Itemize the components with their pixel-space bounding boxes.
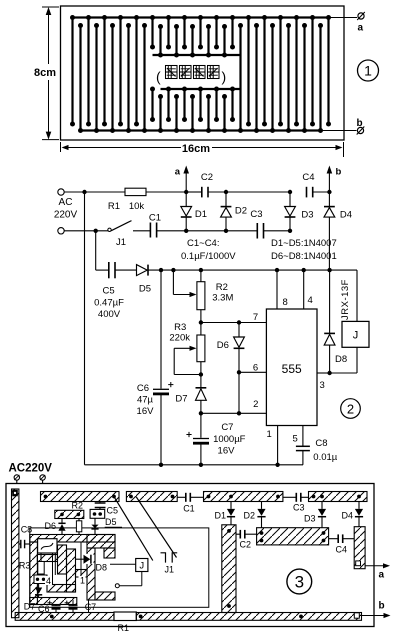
svg-text:a: a — [379, 570, 385, 581]
svg-text:D6~D8:1N4001: D6~D8:1N4001 — [271, 251, 337, 262]
trace pad box A — [55, 510, 84, 518]
trace maze block bottom — [95, 592, 115, 600]
svg-text:555: 555 — [282, 362, 302, 376]
pin 4 lead — [304, 270, 313, 309]
trace top bar 4 — [309, 492, 368, 502]
resistor R1 pcb — [114, 612, 136, 621]
C4 pcb label — [336, 545, 348, 555]
trace maze left arm — [30, 542, 38, 605]
electrode board outline — [61, 6, 345, 140]
svg-text:C2: C2 — [240, 540, 252, 550]
output b label — [336, 167, 342, 178]
capacitor C2 — [202, 187, 208, 198]
diode types note — [271, 238, 337, 262]
terminal b label — [357, 118, 363, 129]
AC source terminals — [58, 189, 64, 234]
node D2 bottom — [224, 229, 228, 233]
callout 2 — [341, 399, 361, 419]
svg-text:C5: C5 — [103, 286, 115, 297]
C3 pcb label — [293, 503, 305, 513]
dimension 8cm — [34, 7, 59, 140]
electrode b bottom bus — [81, 129, 321, 131]
diode D2 pcb — [257, 502, 265, 528]
diode D7 pcb — [35, 584, 42, 598]
dimension 16cm — [61, 142, 344, 157]
bait zone upper rail — [153, 54, 241, 56]
R2 trace label — [72, 501, 84, 511]
R2 body outline — [76, 519, 81, 535]
pin 3 lead — [317, 373, 330, 391]
svg-text:R3: R3 — [174, 322, 186, 333]
trace maze inner horizontal — [47, 585, 76, 593]
node C6 top — [159, 268, 163, 272]
svg-text:C8: C8 — [21, 525, 33, 535]
C4 label — [302, 172, 314, 183]
relay footprint box — [38, 539, 57, 553]
C1 label — [149, 213, 161, 224]
node b column top — [327, 190, 331, 194]
wire top AC row — [64, 191, 186, 193]
trace right bar — [354, 527, 365, 569]
C5 value label — [94, 286, 124, 320]
switch J1 — [108, 221, 151, 232]
svg-text:8cm: 8cm — [34, 67, 56, 79]
pin 2 label — [253, 399, 258, 410]
C6 value label — [137, 383, 155, 417]
wire C7 lead — [88, 600, 90, 613]
svg-text:4: 4 — [46, 576, 51, 586]
svg-text:D6: D6 — [217, 340, 229, 351]
J1 label — [116, 237, 126, 248]
trace maze block arm — [87, 548, 95, 600]
trace maze right vertical — [67, 549, 76, 592]
trace tall middle bar — [222, 525, 236, 613]
output b pcb label — [379, 601, 385, 612]
svg-text:): ) — [222, 69, 227, 85]
D6 label — [217, 340, 229, 351]
output a arrow — [183, 166, 189, 193]
relay coil J — [330, 270, 369, 373]
D5 label — [139, 284, 151, 295]
svg-text:JRX-13F: JRX-13F — [340, 279, 351, 320]
svg-text:C1~C4:: C1~C4: — [187, 238, 219, 249]
diode D8 — [324, 270, 335, 373]
diode D5 — [137, 265, 149, 276]
PCB board outline — [6, 484, 374, 627]
diode D1 pcb — [227, 502, 235, 525]
R2 value label — [212, 282, 233, 304]
capacitor C8 — [296, 446, 310, 465]
wire pin7 — [201, 322, 267, 324]
node D6 top — [237, 320, 241, 324]
C7 value label — [213, 422, 246, 457]
capacitor C3 pcb — [283, 493, 309, 502]
C8 pcb label — [21, 525, 33, 535]
D6 pcb label — [45, 521, 57, 531]
node pin4 top — [302, 268, 306, 272]
C5 pcb label — [107, 506, 119, 516]
svg-text:400V: 400V — [98, 309, 121, 320]
pad box lower — [34, 575, 47, 584]
svg-text:C8: C8 — [315, 438, 327, 449]
diode D5 pcb — [91, 518, 98, 534]
svg-text:3: 3 — [320, 380, 325, 391]
node R2 top — [199, 268, 203, 272]
svg-text:R3: R3 — [19, 561, 31, 571]
potentiometer R2 — [197, 270, 205, 335]
svg-text:a: a — [175, 167, 181, 178]
svg-text:1: 1 — [267, 429, 272, 440]
node D1 bottom — [184, 229, 188, 233]
capacitor C5 — [96, 231, 137, 278]
capacitor C4 — [307, 187, 313, 198]
node pin3 D8 — [327, 371, 331, 375]
svg-text:C2: C2 — [201, 172, 213, 183]
pin 6 label — [253, 363, 258, 374]
AC220V input label — [9, 463, 53, 475]
D7 label — [175, 394, 187, 405]
svg-text:220V: 220V — [54, 210, 78, 221]
component area outline — [30, 528, 209, 607]
C6 pcb label — [38, 604, 50, 614]
trace maze mid vertical — [58, 545, 67, 574]
svg-text:D4: D4 — [342, 511, 354, 521]
capacitor C3 — [257, 223, 263, 239]
IC pin 1 mark — [79, 576, 86, 586]
svg-text:AC: AC — [59, 197, 73, 208]
node C6 bottom — [159, 463, 163, 467]
terminal a lead — [329, 12, 365, 20]
trace bottom bar right — [136, 613, 361, 621]
diode D2 — [221, 192, 232, 231]
relay type label JRX-13F — [340, 279, 351, 320]
svg-text:1: 1 — [80, 576, 85, 586]
svg-text:C1: C1 — [149, 213, 161, 224]
potentiometer R3 — [197, 335, 205, 375]
R1 value label — [108, 201, 144, 212]
wire left rail — [84, 192, 86, 465]
D4 label — [340, 210, 352, 221]
svg-text:0.01µ: 0.01µ — [313, 452, 337, 463]
svg-text:0.47µF: 0.47µF — [94, 297, 124, 308]
svg-text:1000µF: 1000µF — [213, 434, 246, 445]
D2 label — [235, 206, 247, 217]
relay J box — [110, 559, 148, 588]
svg-text:3: 3 — [295, 573, 304, 592]
node D3 bottom — [288, 229, 292, 233]
C5 pad box — [90, 509, 105, 518]
svg-text:16cm: 16cm — [182, 143, 210, 155]
svg-text:D2: D2 — [235, 206, 247, 217]
bait area label (fang you er chu) — [156, 66, 226, 85]
wire maze lead 2 — [54, 553, 56, 575]
D5 pcb label — [105, 517, 117, 527]
trace wide bar — [257, 528, 329, 545]
svg-text:R1: R1 — [118, 623, 130, 633]
diode D6 pcb — [58, 519, 65, 535]
pin 7 label — [253, 312, 258, 323]
D7 pcb label — [24, 602, 36, 612]
node R2 wiper tap — [171, 268, 175, 272]
wire pin6 — [239, 371, 266, 373]
diode D4 pcb — [355, 502, 363, 527]
D1 label — [195, 209, 207, 220]
capacitor C6 electrolytic — [153, 270, 173, 465]
capacitor C1 — [150, 223, 186, 238]
svg-text:C7: C7 — [221, 422, 233, 433]
C3 label — [250, 209, 262, 220]
AC input terminal pins — [14, 475, 45, 492]
svg-text:J1: J1 — [165, 565, 175, 575]
svg-text:R2: R2 — [72, 501, 84, 511]
wire bottom rail — [85, 464, 304, 466]
svg-text:7: 7 — [253, 312, 258, 323]
J1 pcb label — [165, 565, 175, 575]
capacitor C7 electrolytic — [186, 413, 209, 465]
svg-text:0.1µF/1000V: 0.1µF/1000V — [181, 251, 236, 262]
resistor R3 body — [38, 553, 44, 578]
node C7 bottom — [199, 463, 203, 467]
svg-text:b: b — [357, 118, 363, 129]
svg-text:D1: D1 — [215, 511, 227, 521]
trace left rail — [12, 489, 19, 618]
pin 1 lead — [267, 426, 280, 467]
svg-text:47µ: 47µ — [137, 395, 154, 406]
svg-text:a: a — [358, 23, 364, 34]
diode D3 — [285, 192, 296, 231]
svg-text:D4: D4 — [340, 210, 352, 221]
output a label — [175, 167, 181, 178]
svg-text:C1: C1 — [183, 504, 195, 514]
trace maze block notch — [104, 548, 115, 558]
D3 label — [301, 210, 313, 221]
trace top bar 2 — [126, 492, 177, 502]
wire row1 — [186, 191, 329, 193]
wire maze lead 3 — [80, 542, 82, 576]
svg-text:b: b — [336, 167, 342, 178]
jumper diagonal A — [115, 498, 153, 561]
svg-text:C3: C3 — [293, 503, 305, 513]
node pin8 top — [275, 268, 279, 272]
wire D5 horizontal — [105, 526, 122, 528]
svg-text:D6: D6 — [45, 521, 57, 531]
bait zone lower rail — [161, 88, 241, 90]
node R3 bottom — [199, 372, 203, 376]
R3 wiper arm — [174, 346, 201, 375]
capacitor C2 pcb — [236, 530, 257, 539]
trace maze top band — [30, 535, 115, 543]
output b pad arrow — [360, 613, 391, 618]
svg-text:C5: C5 — [107, 506, 119, 516]
svg-text:3.3M: 3.3M — [212, 293, 233, 304]
svg-text:2: 2 — [347, 401, 354, 416]
svg-text:C6: C6 — [137, 383, 149, 394]
svg-text:10k: 10k — [129, 201, 145, 212]
R1 pcb label — [118, 623, 130, 633]
node D6 bottom — [237, 411, 241, 415]
timer IC 555 — [266, 309, 317, 426]
svg-text:b: b — [379, 601, 385, 612]
diode D7 — [196, 375, 207, 414]
trace maze link strip — [76, 570, 88, 578]
svg-text:C4: C4 — [302, 172, 314, 183]
svg-text:D8: D8 — [96, 563, 108, 573]
svg-text:D5: D5 — [105, 517, 117, 527]
svg-text:1: 1 — [364, 63, 372, 79]
electrode a comb fingers — [70, 15, 331, 127]
svg-text:5: 5 — [293, 434, 298, 445]
output a pcb label — [379, 570, 385, 581]
D4 pcb label — [342, 511, 354, 521]
svg-text:D5: D5 — [139, 284, 151, 295]
node D7 bottom — [199, 411, 203, 415]
svg-text:2: 2 — [253, 399, 258, 410]
diode D8 pcb — [76, 554, 94, 564]
svg-text:8: 8 — [283, 297, 288, 308]
wire S-box lead — [52, 553, 54, 585]
trace maze bottom band — [30, 598, 77, 605]
pin 8 lead — [277, 270, 288, 309]
svg-text:16V: 16V — [137, 406, 155, 417]
trace bottom bar left — [15, 613, 114, 621]
node top-left junction — [82, 190, 86, 194]
jumper diagonal B — [136, 497, 177, 558]
D3 pcb label — [304, 514, 316, 524]
terminal a label — [358, 23, 364, 34]
output a pad arrow — [365, 563, 390, 568]
node pin6 tap — [237, 370, 241, 374]
diode D4 — [324, 192, 335, 270]
svg-text:D3: D3 — [304, 514, 316, 524]
diode D1 — [181, 192, 192, 231]
electrode b comb fingers — [78, 23, 323, 133]
trace maze block top — [87, 535, 115, 549]
R3 pcb label — [19, 561, 31, 571]
svg-text:R2: R2 — [216, 282, 228, 293]
svg-text:D3: D3 — [301, 210, 313, 221]
trace maze under-S strip — [37, 555, 57, 562]
callout 3 — [287, 569, 312, 594]
AC 220V label — [54, 197, 78, 221]
D8 pcb label — [96, 563, 108, 573]
D2 pcb label — [244, 511, 256, 521]
IC pin 4 mark — [45, 576, 52, 586]
svg-text:16V: 16V — [218, 446, 236, 457]
C8 value label — [313, 438, 337, 463]
C7 pcb label — [85, 602, 97, 612]
wire positive rail — [148, 269, 357, 271]
svg-text:J1: J1 — [116, 237, 126, 248]
svg-text:D7: D7 — [175, 394, 187, 405]
capacitor C8 pcb — [19, 540, 30, 549]
svg-text:J: J — [139, 561, 144, 572]
pin 5 lead — [293, 426, 303, 447]
D1 pcb label — [215, 511, 227, 521]
svg-text:D1~D5:1N4007: D1~D5:1N4007 — [271, 238, 337, 249]
svg-text:AC220V: AC220V — [9, 463, 53, 475]
node C2 right — [224, 190, 228, 194]
svg-text:D7: D7 — [24, 602, 36, 612]
svg-text:R1: R1 — [108, 201, 120, 212]
capacitor C1 pcb — [177, 493, 203, 502]
capacitor values note — [181, 238, 236, 262]
resistor R1 — [125, 188, 146, 195]
capacitor C5 pcb — [95, 502, 106, 510]
svg-text:J: J — [353, 330, 359, 342]
C2 label — [201, 172, 213, 183]
electrode a top bus — [73, 16, 329, 18]
trace top bar 3 — [204, 492, 283, 502]
node C4 left — [288, 190, 292, 194]
diode D6 — [234, 323, 245, 414]
svg-text:C7: C7 — [85, 602, 97, 612]
wire bottom AC row — [64, 230, 108, 232]
switch J1 contacts — [161, 553, 178, 563]
svg-text:6: 6 — [253, 363, 258, 374]
svg-text:D2: D2 — [244, 511, 256, 521]
node R2 bottom — [199, 320, 203, 324]
trace top bar 1 — [41, 492, 120, 502]
svg-text:C3: C3 — [250, 209, 262, 220]
D8 label — [335, 354, 347, 365]
node C5 branch junction — [94, 229, 98, 233]
capacitor C6 pcb electrolytic — [48, 601, 61, 613]
svg-text:(: ( — [156, 69, 161, 85]
C1 pcb label — [183, 504, 195, 514]
capacitor C4 pcb — [329, 534, 355, 543]
output b arrow — [327, 166, 333, 193]
R2 wiper arm — [173, 270, 196, 297]
wire row2 — [186, 230, 290, 232]
callout 1 — [358, 60, 379, 81]
svg-text:D8: D8 — [335, 354, 347, 365]
svg-text:4: 4 — [308, 295, 313, 306]
svg-text:D1: D1 — [195, 209, 207, 220]
capacitor C7 pcb electrolytic — [65, 600, 78, 613]
terminal b lead — [321, 127, 365, 135]
svg-text:C4: C4 — [336, 545, 348, 555]
wire pin2 — [201, 412, 267, 414]
svg-text:220k: 220k — [169, 332, 190, 343]
diode D3 pcb — [318, 502, 326, 528]
node D8 top — [327, 268, 331, 272]
node a column top — [184, 190, 188, 194]
R3 value label — [169, 322, 190, 343]
C2 pcb label — [240, 540, 252, 550]
